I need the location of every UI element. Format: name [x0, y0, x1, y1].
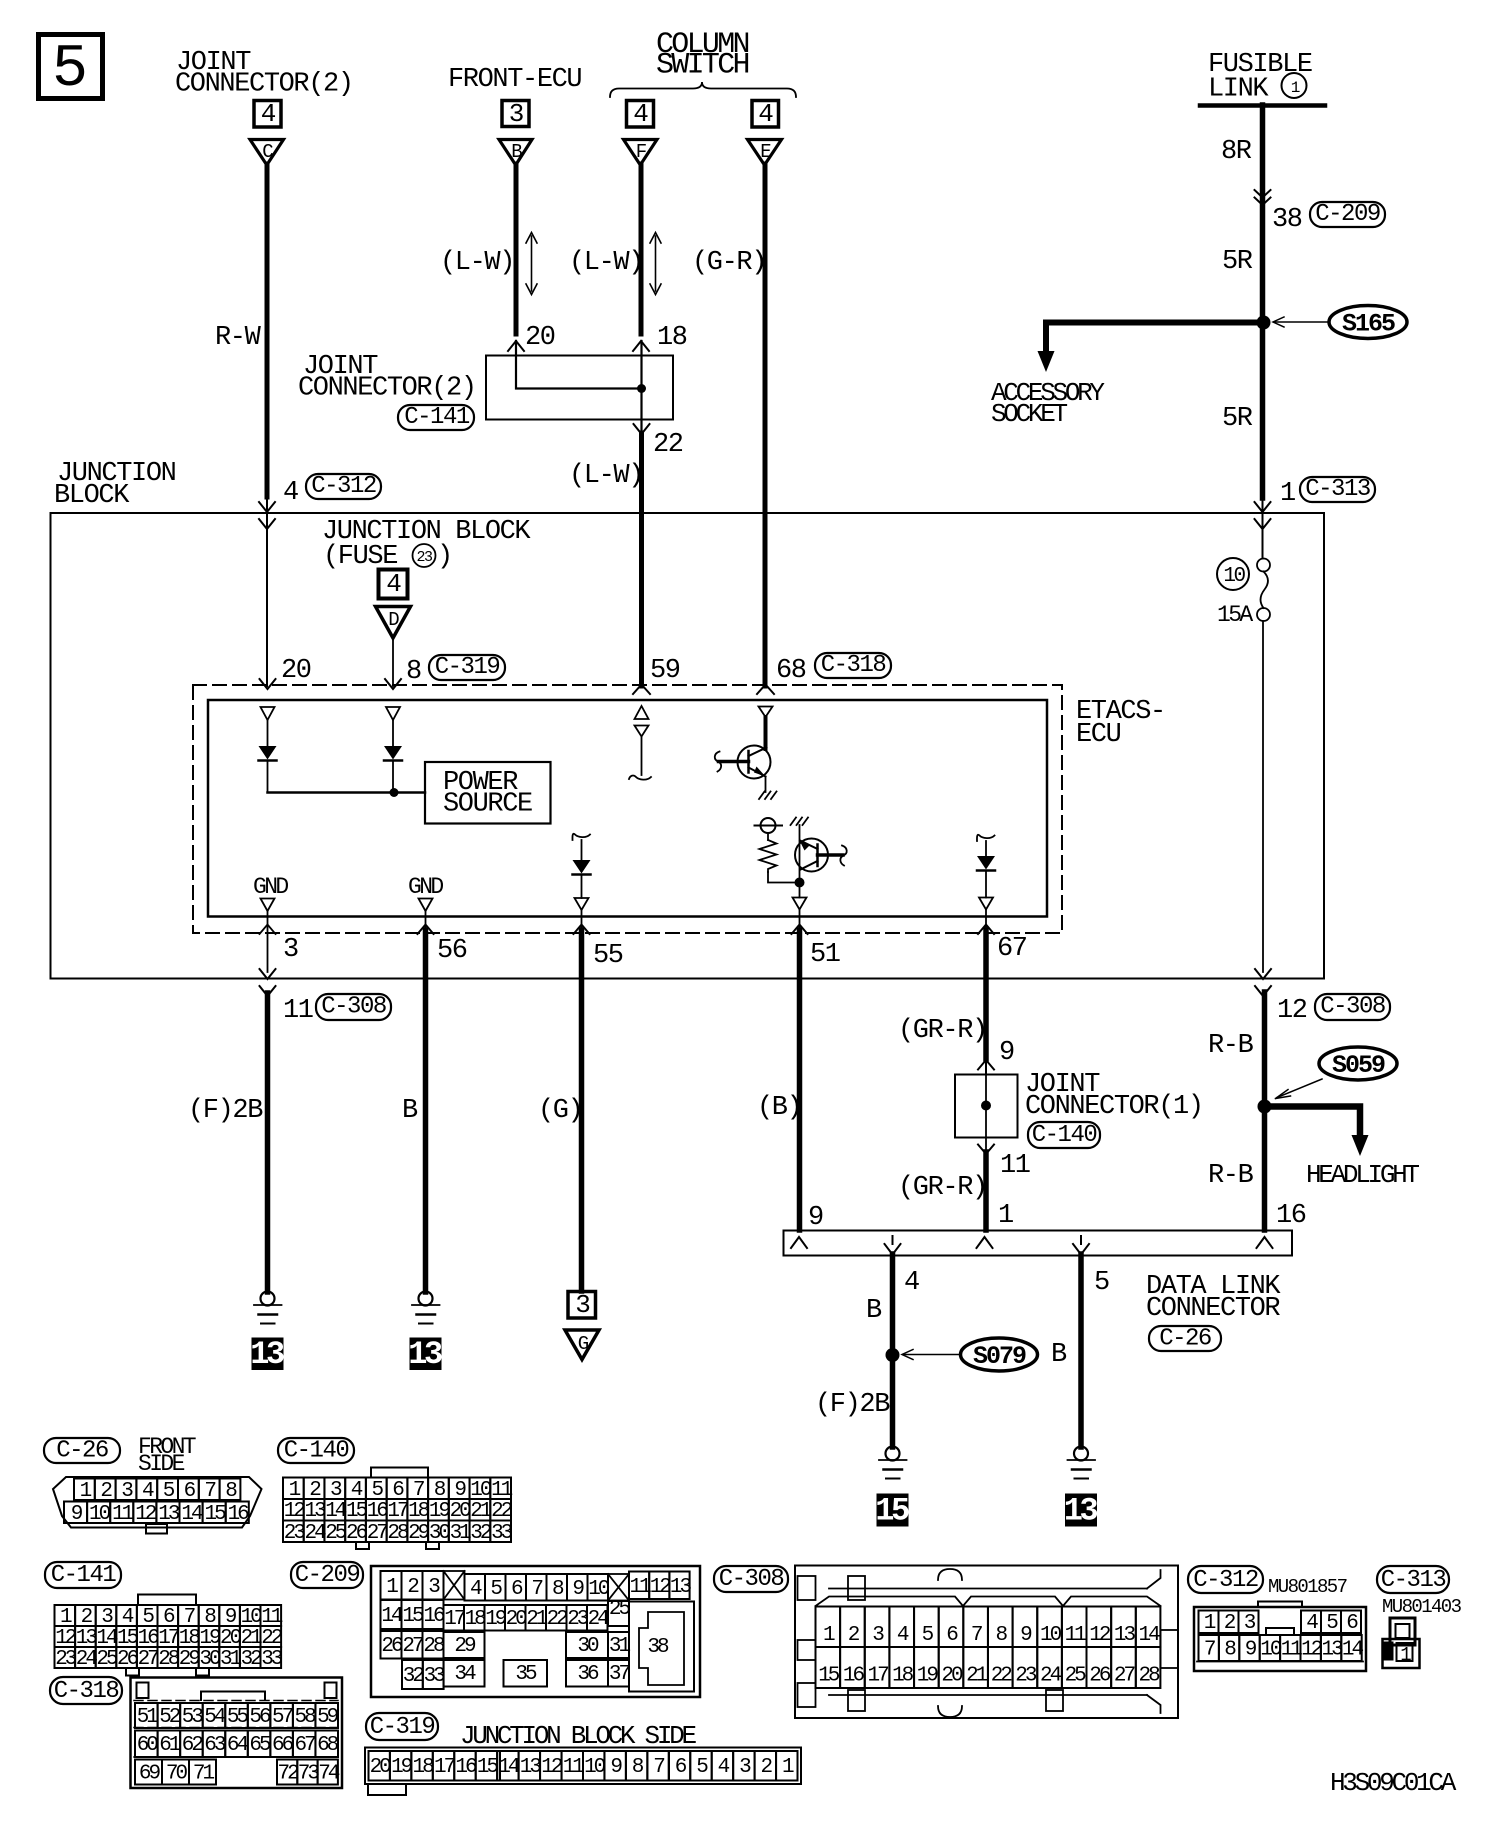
svg-text:38: 38 — [647, 1636, 669, 1659]
svg-text:C-140: C-140 — [284, 1438, 349, 1465]
svg-text:9: 9 — [999, 1038, 1014, 1068]
entry arrow joint connector 1 — [978, 1059, 994, 1074]
svg-text:72: 72 — [277, 1763, 299, 1786]
ground symbol 13 right — [1068, 1447, 1096, 1479]
circled 1 (fusible link number) — [1282, 73, 1307, 98]
connector C-308 housing details — [798, 1569, 1179, 1717]
svg-text:57: 57 — [272, 1706, 293, 1729]
connector C-140 pins row 2 — [283, 1499, 513, 1523]
connector C-209 pin 30 — [566, 1632, 608, 1658]
fusible link bus bar — [1200, 103, 1325, 108]
svg-text:12: 12 — [1089, 1624, 1111, 1647]
svg-text:GND: GND — [253, 874, 288, 900]
input triangle pin 8 — [386, 707, 400, 720]
svg-text:25: 25 — [1065, 1665, 1087, 1688]
svg-text:14: 14 — [498, 1756, 520, 1779]
svg-text:12: 12 — [1301, 1639, 1323, 1662]
headlight arrowhead — [1352, 1135, 1369, 1156]
svg-text:5R: 5R — [1222, 404, 1253, 434]
svg-text:R-B: R-B — [1208, 1031, 1254, 1061]
splice callout oval S059 — [1319, 1047, 1397, 1080]
svg-text:15: 15 — [477, 1756, 499, 1779]
connector C-140 pinout top tab — [371, 1468, 428, 1478]
splice junction dot S079 — [886, 1348, 900, 1362]
label JUNCTION BLOCK (FUSE 23) — [322, 517, 531, 572]
svg-text:22: 22 — [547, 1608, 569, 1631]
wire L-W from triangle B — [514, 164, 519, 334]
svg-text:4: 4 — [283, 478, 298, 508]
junction dot Q2 output — [795, 878, 805, 888]
connector C-318 dashed separators — [134, 1701, 338, 1758]
svg-text:16: 16 — [228, 1503, 250, 1526]
svg-text:3: 3 — [575, 1290, 589, 1320]
svg-text:30: 30 — [199, 1648, 221, 1671]
svg-text:F: F — [636, 141, 647, 163]
svg-text:28: 28 — [158, 1648, 180, 1671]
svg-text:BLOCK: BLOCK — [54, 481, 130, 511]
svg-text:C-308: C-308 — [321, 994, 386, 1021]
svg-text:70: 70 — [166, 1763, 188, 1786]
triangle D — [376, 607, 411, 639]
svg-text:27: 27 — [1114, 1665, 1135, 1688]
svg-text:34: 34 — [454, 1663, 476, 1686]
svg-text:ECU: ECU — [1076, 720, 1121, 750]
ground symbol 15 — [879, 1447, 907, 1479]
connector code oval C-319 pinout — [366, 1713, 438, 1741]
svg-text:67: 67 — [294, 1734, 315, 1757]
svg-text:59: 59 — [650, 656, 680, 686]
svg-text:27: 27 — [402, 1635, 423, 1658]
connector code oval C-141 — [398, 404, 474, 431]
connector C-308 pins 1-14 — [816, 1607, 1161, 1648]
svg-text:C-26: C-26 — [56, 1438, 108, 1465]
svg-text:23: 23 — [55, 1648, 77, 1671]
svg-text:3: 3 — [283, 935, 298, 965]
crossing chevrons into junction block (C-313) — [1255, 497, 1271, 559]
svg-text:3: 3 — [509, 99, 523, 129]
connector code oval C-308 right — [1315, 994, 1390, 1021]
svg-text:65: 65 — [249, 1734, 271, 1757]
svg-text:30: 30 — [577, 1635, 599, 1658]
connector box 3 (G wire) — [568, 1290, 596, 1320]
svg-text:23: 23 — [1015, 1665, 1037, 1688]
svg-text:25: 25 — [96, 1648, 118, 1671]
wire B pin 4 — [890, 1254, 896, 1447]
connector C-26 pins row 1 — [74, 1479, 240, 1503]
svg-text:32: 32 — [470, 1522, 492, 1545]
svg-text:19: 19 — [485, 1608, 507, 1631]
svg-text:67: 67 — [997, 934, 1027, 964]
ground symbol 13 left — [254, 1292, 282, 1324]
sheet number box 5 — [39, 35, 103, 105]
svg-text:13: 13 — [1114, 1624, 1136, 1647]
entry arrow pin 9 — [791, 1237, 807, 1248]
diode D2 — [384, 720, 402, 793]
svg-text:32: 32 — [241, 1648, 263, 1671]
wire B pin 5 — [1078, 1254, 1084, 1447]
POWER SOURCE box — [425, 762, 551, 824]
exit wire pin 67 — [978, 910, 994, 1060]
svg-text:C-141: C-141 — [404, 404, 470, 431]
connector code oval C-313 pinout — [1377, 1566, 1449, 1594]
svg-text:C-312: C-312 — [311, 473, 376, 500]
joint connector (2) C-141 box — [486, 356, 673, 420]
connector C-140 bottom tabs — [356, 1542, 439, 1549]
svg-text:4: 4 — [386, 569, 401, 599]
svg-text:S059: S059 — [1332, 1051, 1385, 1080]
connector C-26 pins row 2 — [64, 1502, 249, 1526]
svg-text:5R: 5R — [1222, 247, 1253, 277]
svg-text:C-318: C-318 — [821, 652, 886, 679]
svg-text:26: 26 — [381, 1635, 403, 1658]
svg-text:C-319: C-319 — [370, 1714, 435, 1741]
svg-text:12: 12 — [541, 1756, 563, 1779]
svg-text:SIDE: SIDE — [138, 1451, 185, 1477]
ETACS-ECU dashed outline — [193, 685, 1062, 933]
svg-text:C-141: C-141 — [51, 1562, 117, 1589]
svg-text:53: 53 — [182, 1706, 204, 1729]
svg-text:19: 19 — [391, 1756, 413, 1779]
svg-text:21: 21 — [966, 1665, 988, 1688]
connector C-209 pin 25 — [608, 1598, 630, 1626]
ground hatch Q1 — [759, 792, 777, 800]
svg-text:11: 11 — [1281, 1639, 1303, 1662]
svg-text:(F)2B: (F)2B — [188, 1096, 263, 1126]
svg-text:52: 52 — [159, 1706, 181, 1729]
svg-text:14: 14 — [181, 1503, 203, 1526]
joint connector internal wire F — [640, 341, 642, 433]
svg-text:CONNECTOR(2): CONNECTOR(2) — [175, 70, 353, 100]
joint connector junction dot — [637, 384, 646, 393]
svg-text:35: 35 — [515, 1663, 537, 1686]
svg-text:18: 18 — [412, 1756, 434, 1779]
svg-text:4: 4 — [758, 99, 773, 129]
svg-text:C: C — [262, 141, 273, 163]
connector code oval C-140 pinout — [278, 1438, 354, 1465]
connector C-209 pin 35 — [504, 1660, 548, 1687]
svg-text:7: 7 — [653, 1756, 664, 1779]
svg-text:23: 23 — [284, 1522, 306, 1545]
pin 18 entry arrow joint connector 2 — [633, 341, 649, 351]
svg-text:(F)2B: (F)2B — [815, 1390, 890, 1420]
svg-text:22: 22 — [991, 1665, 1013, 1688]
svg-text:11: 11 — [283, 996, 313, 1026]
svg-text:28: 28 — [1138, 1665, 1160, 1688]
wire to power source — [268, 791, 426, 794]
svg-text:38: 38 — [1272, 205, 1302, 235]
svg-text:5: 5 — [1094, 1268, 1109, 1298]
svg-text:MU801403: MU801403 — [1382, 1596, 1462, 1618]
label JOINT CONNECTOR(2) C-141 — [298, 352, 476, 404]
entry arrow pin 68 — [757, 685, 774, 695]
svg-text:17: 17 — [867, 1665, 888, 1688]
connector C-141 pins row 2 — [55, 1626, 283, 1650]
svg-text:): ) — [437, 542, 452, 572]
svg-text:68: 68 — [776, 656, 806, 686]
svg-text:B: B — [1051, 1340, 1067, 1370]
connector C-26 bottom tab — [146, 1524, 167, 1534]
joint connector (1) C-140 box — [955, 1074, 1018, 1152]
output triangle pin 51 — [793, 883, 807, 910]
arrow from S059 to junction — [1276, 1079, 1323, 1099]
connector C-209 pins 1-3 — [381, 1571, 444, 1600]
svg-text:56: 56 — [249, 1706, 271, 1729]
svg-text:B: B — [402, 1096, 418, 1126]
exit wire pin 51 — [792, 910, 808, 1231]
connector C-209 pin 38 — [629, 1602, 694, 1692]
ground box 13 left — [250, 1336, 284, 1373]
svg-text:55: 55 — [593, 941, 623, 971]
svg-text:7: 7 — [1204, 1639, 1215, 1662]
svg-text:7: 7 — [531, 1578, 542, 1601]
connector code oval C-318 — [815, 652, 891, 679]
label DATA LINK CONNECTOR — [1146, 1272, 1281, 1324]
connector C-312 pins 7-14 — [1199, 1635, 1364, 1662]
entry arrow pin 16 — [1257, 1237, 1273, 1248]
connector code oval C-308 pinout — [714, 1566, 788, 1593]
connector box 3 (front-ecu B) — [502, 99, 529, 129]
diode D3 (55 branch) with curl — [572, 834, 590, 910]
svg-text:31: 31 — [220, 1648, 242, 1671]
connector C-209 pin 29 — [444, 1632, 485, 1658]
ground triangle pin 3 — [261, 899, 275, 912]
svg-text:13: 13 — [1321, 1639, 1343, 1662]
wire L-W below joint connector — [639, 433, 644, 686]
wire (GR-R) lower segment — [983, 1152, 989, 1230]
wire 8R fusible link — [1260, 105, 1266, 322]
svg-text:58: 58 — [294, 1706, 316, 1729]
svg-text:C-312: C-312 — [1193, 1567, 1258, 1594]
double arrow column switch — [650, 233, 661, 295]
svg-text:14: 14 — [1342, 1639, 1364, 1662]
svg-text:B: B — [511, 141, 522, 163]
svg-text:24: 24 — [304, 1522, 326, 1545]
diode D4 (67 branch) with curl — [977, 835, 995, 910]
svg-text:56: 56 — [437, 936, 467, 966]
connector C-318 pins 69-71 — [135, 1760, 216, 1786]
svg-text:C-313: C-313 — [1305, 476, 1370, 503]
svg-text:12: 12 — [1277, 996, 1307, 1026]
svg-text:(GR-R): (GR-R) — [898, 1173, 987, 1203]
svg-text:C-308: C-308 — [719, 1566, 784, 1593]
headlight branch wire — [1265, 1107, 1361, 1138]
splice junction dot S165 — [1257, 316, 1271, 330]
svg-text:16: 16 — [455, 1756, 477, 1779]
connector C-209 pin 37 — [608, 1660, 629, 1687]
connector C-209 pins 17-24 — [444, 1605, 610, 1631]
connector C-26 pinout outline — [53, 1477, 262, 1528]
wire 5R lower segment — [1260, 322, 1266, 498]
svg-text:33: 33 — [491, 1522, 513, 1545]
label COLUMN SWITCH — [656, 28, 749, 83]
svg-text:B: B — [866, 1296, 882, 1326]
input triangle pin 68 — [759, 707, 773, 718]
connector code oval C-26 — [1149, 1326, 1221, 1353]
svg-text:63: 63 — [204, 1734, 226, 1757]
svg-text:H3S09C01CA: H3S09C01CA — [1330, 1768, 1457, 1798]
svg-text:64: 64 — [227, 1734, 249, 1757]
svg-text:10: 10 — [89, 1503, 111, 1526]
connector code oval C-318 pinout — [50, 1677, 122, 1705]
svg-text:62: 62 — [182, 1734, 204, 1757]
svg-text:C-26: C-26 — [1159, 1326, 1211, 1353]
svg-text:13: 13 — [1064, 1493, 1098, 1530]
svg-text:8: 8 — [406, 657, 421, 687]
ground box 15 — [875, 1493, 909, 1530]
svg-text:23: 23 — [416, 549, 433, 566]
label ACCESSORY SOCKET — [991, 378, 1105, 429]
connector C-312 outline — [1194, 1602, 1366, 1672]
ground hatch Q2 — [791, 818, 809, 826]
stub wire pin 59 with curl — [629, 737, 651, 780]
svg-text:27: 27 — [138, 1648, 159, 1671]
svg-text:GND: GND — [408, 874, 443, 900]
connector C-318 pins 51-59 — [135, 1703, 339, 1729]
svg-text:29: 29 — [179, 1648, 201, 1671]
connector code oval C-209 — [1310, 201, 1385, 228]
connector C-318 pins 72-74 — [277, 1760, 340, 1786]
input double triangle pin 59 — [635, 706, 649, 737]
data link connector box — [784, 1231, 1293, 1256]
svg-text:59: 59 — [317, 1706, 339, 1729]
svg-text:55: 55 — [227, 1706, 249, 1729]
wire L-W from triangle F — [639, 164, 644, 334]
arrow from S165 to junction — [1273, 317, 1329, 327]
svg-text:11: 11 — [563, 1756, 585, 1779]
svg-text:24: 24 — [76, 1648, 98, 1671]
exit arrow joint connector 1 — [978, 1145, 994, 1155]
svg-text:SOCKET: SOCKET — [991, 399, 1068, 429]
svg-text:(L-W): (L-W) — [440, 248, 514, 278]
svg-text:8R: 8R — [1221, 137, 1252, 167]
svg-text:1: 1 — [998, 1201, 1013, 1231]
connector C-319 outline — [365, 1748, 801, 1796]
svg-text:C-209: C-209 — [295, 1562, 360, 1589]
svg-text:24: 24 — [588, 1608, 610, 1631]
connector C-209 pins 32-33 — [402, 1660, 445, 1689]
circled fuse number 10 — [1217, 558, 1249, 590]
svg-text:(G): (G) — [538, 1096, 582, 1126]
svg-text:4: 4 — [904, 1268, 919, 1298]
connector code oval C-319 — [429, 654, 505, 681]
svg-text:CONNECTOR: CONNECTOR — [1146, 1294, 1280, 1324]
splice callout oval S079 — [961, 1338, 1038, 1371]
triangle C — [250, 140, 284, 166]
svg-text:54: 54 — [204, 1706, 226, 1729]
input triangle pin 20 — [261, 707, 275, 720]
connector box 4 (column switch E) — [752, 99, 779, 129]
svg-text:12: 12 — [135, 1503, 157, 1526]
svg-text:MU801857: MU801857 — [1268, 1576, 1347, 1598]
svg-text:31: 31 — [609, 1635, 631, 1658]
svg-text:13: 13 — [250, 1336, 284, 1373]
wire G-R from triangle E — [763, 164, 768, 686]
connector C-209 pins 14-16 — [381, 1600, 445, 1629]
connector box 4 (joint connector C) — [254, 99, 281, 129]
brace under column switch — [610, 82, 796, 97]
connector code oval C-141 pinout — [45, 1562, 121, 1589]
wire (F)2B ground lead — [265, 993, 271, 1292]
wire from triangle D to etacs — [392, 638, 394, 686]
svg-text:CONNECTOR(1): CONNECTOR(1) — [1025, 1092, 1203, 1122]
svg-text:C-318: C-318 — [54, 1678, 119, 1705]
connector code oval C-313 — [1300, 476, 1375, 503]
ground box 13 right — [1064, 1493, 1098, 1530]
connector C-312 pins 1-3 — [1199, 1611, 1259, 1636]
double arrow front-ecu — [526, 233, 537, 295]
ETACS-ECU inner box — [208, 700, 1047, 917]
svg-text:17: 17 — [444, 1608, 465, 1631]
entry arrow pin 8 — [385, 679, 401, 689]
svg-text:16: 16 — [423, 1605, 445, 1628]
svg-text:36: 36 — [577, 1663, 599, 1686]
svg-text:15: 15 — [818, 1665, 840, 1688]
connector code oval C-312 — [306, 473, 381, 500]
svg-text:74: 74 — [318, 1763, 340, 1786]
entry arrow pin 59 — [633, 685, 650, 695]
svg-text:21: 21 — [526, 1608, 548, 1631]
crossing chevrons into junction block (wire R-W) — [259, 497, 275, 686]
connector C-141 pins row 1 — [55, 1605, 283, 1629]
svg-text:28: 28 — [423, 1635, 445, 1658]
connector code oval C-209 pinout — [291, 1562, 363, 1589]
connector C-209 pins 26-28 — [381, 1631, 445, 1659]
svg-text:66: 66 — [272, 1734, 294, 1757]
pin 22 exit arrow — [634, 424, 650, 434]
ground box 13 mid — [408, 1336, 442, 1373]
svg-text:11: 11 — [1065, 1624, 1087, 1647]
ground symbol 13 mid — [412, 1292, 440, 1324]
svg-text:G: G — [578, 1333, 589, 1355]
svg-text:R-B: R-B — [1208, 1161, 1254, 1191]
svg-text:10: 10 — [588, 1578, 610, 1601]
svg-text:10: 10 — [1040, 1624, 1062, 1647]
svg-text:22: 22 — [653, 430, 683, 460]
svg-text:16: 16 — [843, 1665, 865, 1688]
svg-text:31: 31 — [450, 1522, 472, 1545]
svg-text:71: 71 — [193, 1763, 215, 1786]
svg-text:18: 18 — [892, 1665, 914, 1688]
connector C-209 pins 4-10 — [465, 1574, 610, 1601]
svg-text:13: 13 — [158, 1503, 180, 1526]
svg-text:5: 5 — [52, 36, 88, 104]
svg-text:13: 13 — [520, 1756, 542, 1779]
svg-text:20: 20 — [525, 323, 555, 353]
svg-text:29: 29 — [454, 1635, 476, 1658]
svg-text:HEADLIGHT: HEADLIGHT — [1306, 1160, 1419, 1190]
svg-text:17: 17 — [434, 1756, 455, 1779]
svg-text:12: 12 — [650, 1576, 672, 1599]
svg-text:15: 15 — [204, 1503, 226, 1526]
svg-text:28: 28 — [387, 1522, 409, 1545]
wire from fuse to junction block bottom — [1262, 621, 1264, 972]
pin 20 entry arrow joint connector 2 — [508, 341, 524, 351]
splice junction dot S059 — [1258, 1100, 1272, 1114]
svg-text:(G-R): (G-R) — [692, 248, 766, 278]
transistor Q1 — [715, 717, 771, 792]
diode D1 — [259, 720, 277, 793]
svg-text:10: 10 — [584, 1756, 606, 1779]
label JUNCTION BLOCK — [54, 459, 176, 511]
connector C-141 pinout top tab — [138, 1595, 196, 1606]
svg-text:(L-W): (L-W) — [569, 461, 643, 491]
exit arrow pin 4 — [885, 1236, 901, 1255]
svg-text:68: 68 — [317, 1734, 339, 1757]
svg-text:9: 9 — [808, 1203, 823, 1233]
crossing chevrons pin 11 C-308 — [260, 969, 276, 996]
svg-text:(B): (B) — [757, 1093, 801, 1123]
svg-text:18: 18 — [657, 323, 687, 353]
